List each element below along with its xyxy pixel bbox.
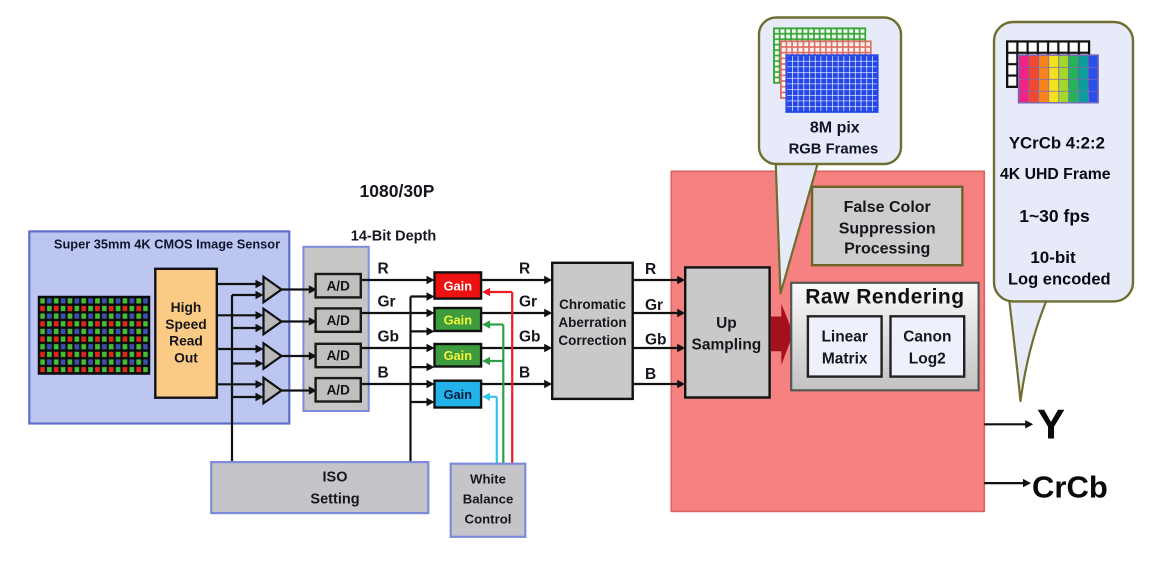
block: Gain Gr — [435, 308, 482, 331]
block: A/D 1 — [316, 274, 361, 297]
wire: readout to amp 2 top input — [217, 314, 256, 316]
block: A/D 4 — [316, 378, 361, 401]
svg-text:14-Bit Depth: 14-Bit Depth — [351, 229, 436, 245]
wire: ISO riser (right) vertical — [409, 297, 411, 463]
svg-text:Gr: Gr — [378, 294, 396, 311]
wire: amp 3 to A/D — [282, 355, 310, 357]
wire: amp 4 to A/D — [282, 389, 310, 391]
svg-text:Gain: Gain — [444, 279, 473, 294]
wire: ISO riser branch to gain 3 — [411, 366, 428, 368]
wire: Gb CAC to upsampling — [633, 347, 678, 349]
svg-text:1080/30P: 1080/30P — [360, 181, 435, 201]
wire: ISO bus branch to amp 4 bottom input — [232, 396, 256, 398]
svg-text:Speed: Speed — [165, 317, 206, 332]
svg-text:Gb: Gb — [519, 329, 541, 346]
svg-text:Balance: Balance — [463, 492, 514, 507]
wire: ISO riser branch to gain 4 — [411, 401, 428, 403]
svg-text:Up: Up — [716, 315, 737, 332]
block: High Speed Read Out — [155, 269, 217, 398]
amplifier triangle 2 — [264, 309, 282, 335]
svg-text:Gain: Gain — [444, 313, 473, 328]
block: Up Sampling — [685, 267, 769, 397]
svg-text:Correction: Correction — [558, 333, 626, 348]
wire: ISO bus branch to amp 1 bottom input — [232, 294, 256, 296]
frame grid red — [781, 41, 871, 98]
wire: Gr A/D to gain — [361, 312, 427, 314]
svg-text:A/D: A/D — [327, 383, 351, 398]
svg-text:Gr: Gr — [645, 297, 663, 314]
wire: Gr CAC to upsampling — [633, 312, 678, 314]
block: Super 35mm 4K CMOS Image Sensor — [29, 231, 289, 423]
wire: Gb A/D to gain — [361, 347, 427, 349]
svg-text:Gr: Gr — [519, 294, 537, 311]
svg-text:Y: Y — [1037, 401, 1065, 448]
wire: ISO bus branch to amp 2 bottom input — [232, 327, 256, 329]
frame grid blue — [786, 55, 877, 112]
svg-text:Out: Out — [174, 351, 198, 366]
svg-text:Gain: Gain — [444, 348, 473, 363]
wire: cyan WB feedback to Gain B — [496, 397, 498, 464]
wire: R CAC to upsampling — [633, 279, 678, 281]
svg-text:Control: Control — [465, 511, 512, 526]
wire: Y output — [984, 423, 1026, 425]
svg-text:Super 35mm 4K CMOS Image Senso: Super 35mm 4K CMOS Image Sensor — [54, 237, 280, 252]
svg-text:Aberration: Aberration — [558, 315, 626, 330]
wire: ISO riser branch to gain 2 — [411, 330, 428, 332]
block: False Color Suppression Processing — [812, 187, 962, 265]
wire: B gain to CAC — [481, 383, 545, 385]
svg-text:R: R — [519, 261, 530, 278]
wire: ISO bus (left) vertical — [231, 295, 233, 462]
block: A/D 3 — [316, 344, 361, 367]
block: Linear Matrix — [808, 316, 882, 376]
amplifier triangle 4 — [264, 378, 282, 404]
svg-text:White: White — [470, 472, 506, 487]
svg-text:A/D: A/D — [327, 278, 351, 293]
svg-text:Suppression: Suppression — [839, 220, 936, 237]
svg-text:Gb: Gb — [378, 329, 400, 346]
block: A/D 2 — [316, 308, 361, 331]
frame grid rainbow — [1019, 55, 1029, 103]
svg-text:B: B — [645, 366, 656, 383]
svg-text:A/D: A/D — [327, 348, 351, 363]
callout tail: 8M pix bubble — [776, 158, 819, 294]
wire: green WB feedback to Gain Gr/Gb — [502, 325, 504, 464]
fat red arrow: upsampling to raw rendering — [771, 304, 793, 365]
block: Raw Rendering — [791, 283, 978, 391]
svg-text:Gain: Gain — [444, 387, 473, 402]
svg-text:Canon: Canon — [903, 329, 951, 346]
svg-text:Raw Rendering: Raw Rendering — [805, 286, 964, 309]
wire: R A/D to gain — [361, 279, 427, 281]
svg-text:Linear: Linear — [821, 329, 868, 346]
block: A/D converter bank — [303, 247, 368, 411]
wire: readout to amp 1 top input — [217, 283, 256, 285]
wire: ISO bus branch to amp 3 bottom input — [232, 362, 256, 364]
wire: amp 1 to A/D — [282, 288, 310, 290]
block: Canon Log2 — [891, 316, 965, 376]
callout tail: YCrCb bubble — [1009, 296, 1048, 401]
svg-text:10-bit: 10-bit — [1030, 248, 1076, 267]
wire: Gr gain to CAC — [481, 312, 545, 314]
svg-text:Matrix: Matrix — [822, 351, 868, 368]
svg-text:Chromatic: Chromatic — [559, 297, 626, 312]
block: Chromatic Aberration Correction — [552, 263, 633, 399]
wire: ISO riser branch to gain 1 — [411, 295, 428, 297]
wire: amp 2 to A/D — [282, 320, 310, 322]
block: main processing pink box — [671, 171, 984, 511]
svg-text:Log encoded: Log encoded — [1008, 271, 1111, 289]
svg-text:YCrCb 4:2:2: YCrCb 4:2:2 — [1009, 134, 1105, 153]
wire: CrCb output — [984, 482, 1024, 484]
wire: B CAC to upsampling — [633, 383, 678, 385]
svg-text:4K UHD Frame: 4K UHD Frame — [1000, 166, 1111, 183]
svg-text:RGB Frames: RGB Frames — [789, 142, 879, 158]
svg-text:High: High — [171, 300, 202, 315]
svg-text:Sampling: Sampling — [692, 337, 762, 354]
svg-text:Processing: Processing — [844, 241, 930, 258]
wire: readout to amp 3 top input — [217, 348, 256, 350]
wire: B A/D to gain — [361, 383, 427, 385]
svg-text:Gb: Gb — [645, 332, 667, 349]
svg-text:A/D: A/D — [327, 313, 351, 328]
amplifier triangle 1 — [264, 277, 282, 303]
frame grid green — [774, 28, 865, 83]
block: ISO Setting — [211, 462, 428, 513]
svg-text:Log2: Log2 — [909, 351, 946, 368]
callout bubble: 8M pix RGB Frames — [759, 18, 901, 165]
wire: readout to amp 4 top input — [217, 383, 256, 385]
svg-text:R: R — [378, 261, 389, 278]
block: White Balance Control — [451, 464, 526, 537]
svg-text:1~30 fps: 1~30 fps — [1019, 206, 1090, 226]
callout bubble: YCrCb 4:2:2 — [994, 22, 1133, 301]
wire: Gb gain to CAC — [481, 347, 545, 349]
frame grid white — [1007, 41, 1089, 87]
bayer pixel array — [39, 297, 149, 374]
wire: R gain to CAC — [481, 279, 545, 281]
svg-text:B: B — [519, 365, 530, 382]
svg-text:R: R — [645, 261, 656, 278]
block: Gain B — [435, 381, 482, 408]
amplifier triangle 3 — [264, 343, 282, 369]
block: Gain Gb — [435, 344, 482, 367]
svg-text:CrCb: CrCb — [1032, 470, 1108, 505]
wire: red WB feedback to Gain R — [511, 292, 513, 464]
svg-text:Read: Read — [169, 334, 203, 349]
svg-text:B: B — [378, 365, 389, 382]
svg-text:8M pix: 8M pix — [810, 120, 860, 137]
block: Gain R — [435, 272, 482, 298]
svg-text:Setting: Setting — [310, 492, 359, 508]
svg-text:ISO: ISO — [323, 470, 348, 486]
svg-text:False Color: False Color — [844, 199, 931, 216]
